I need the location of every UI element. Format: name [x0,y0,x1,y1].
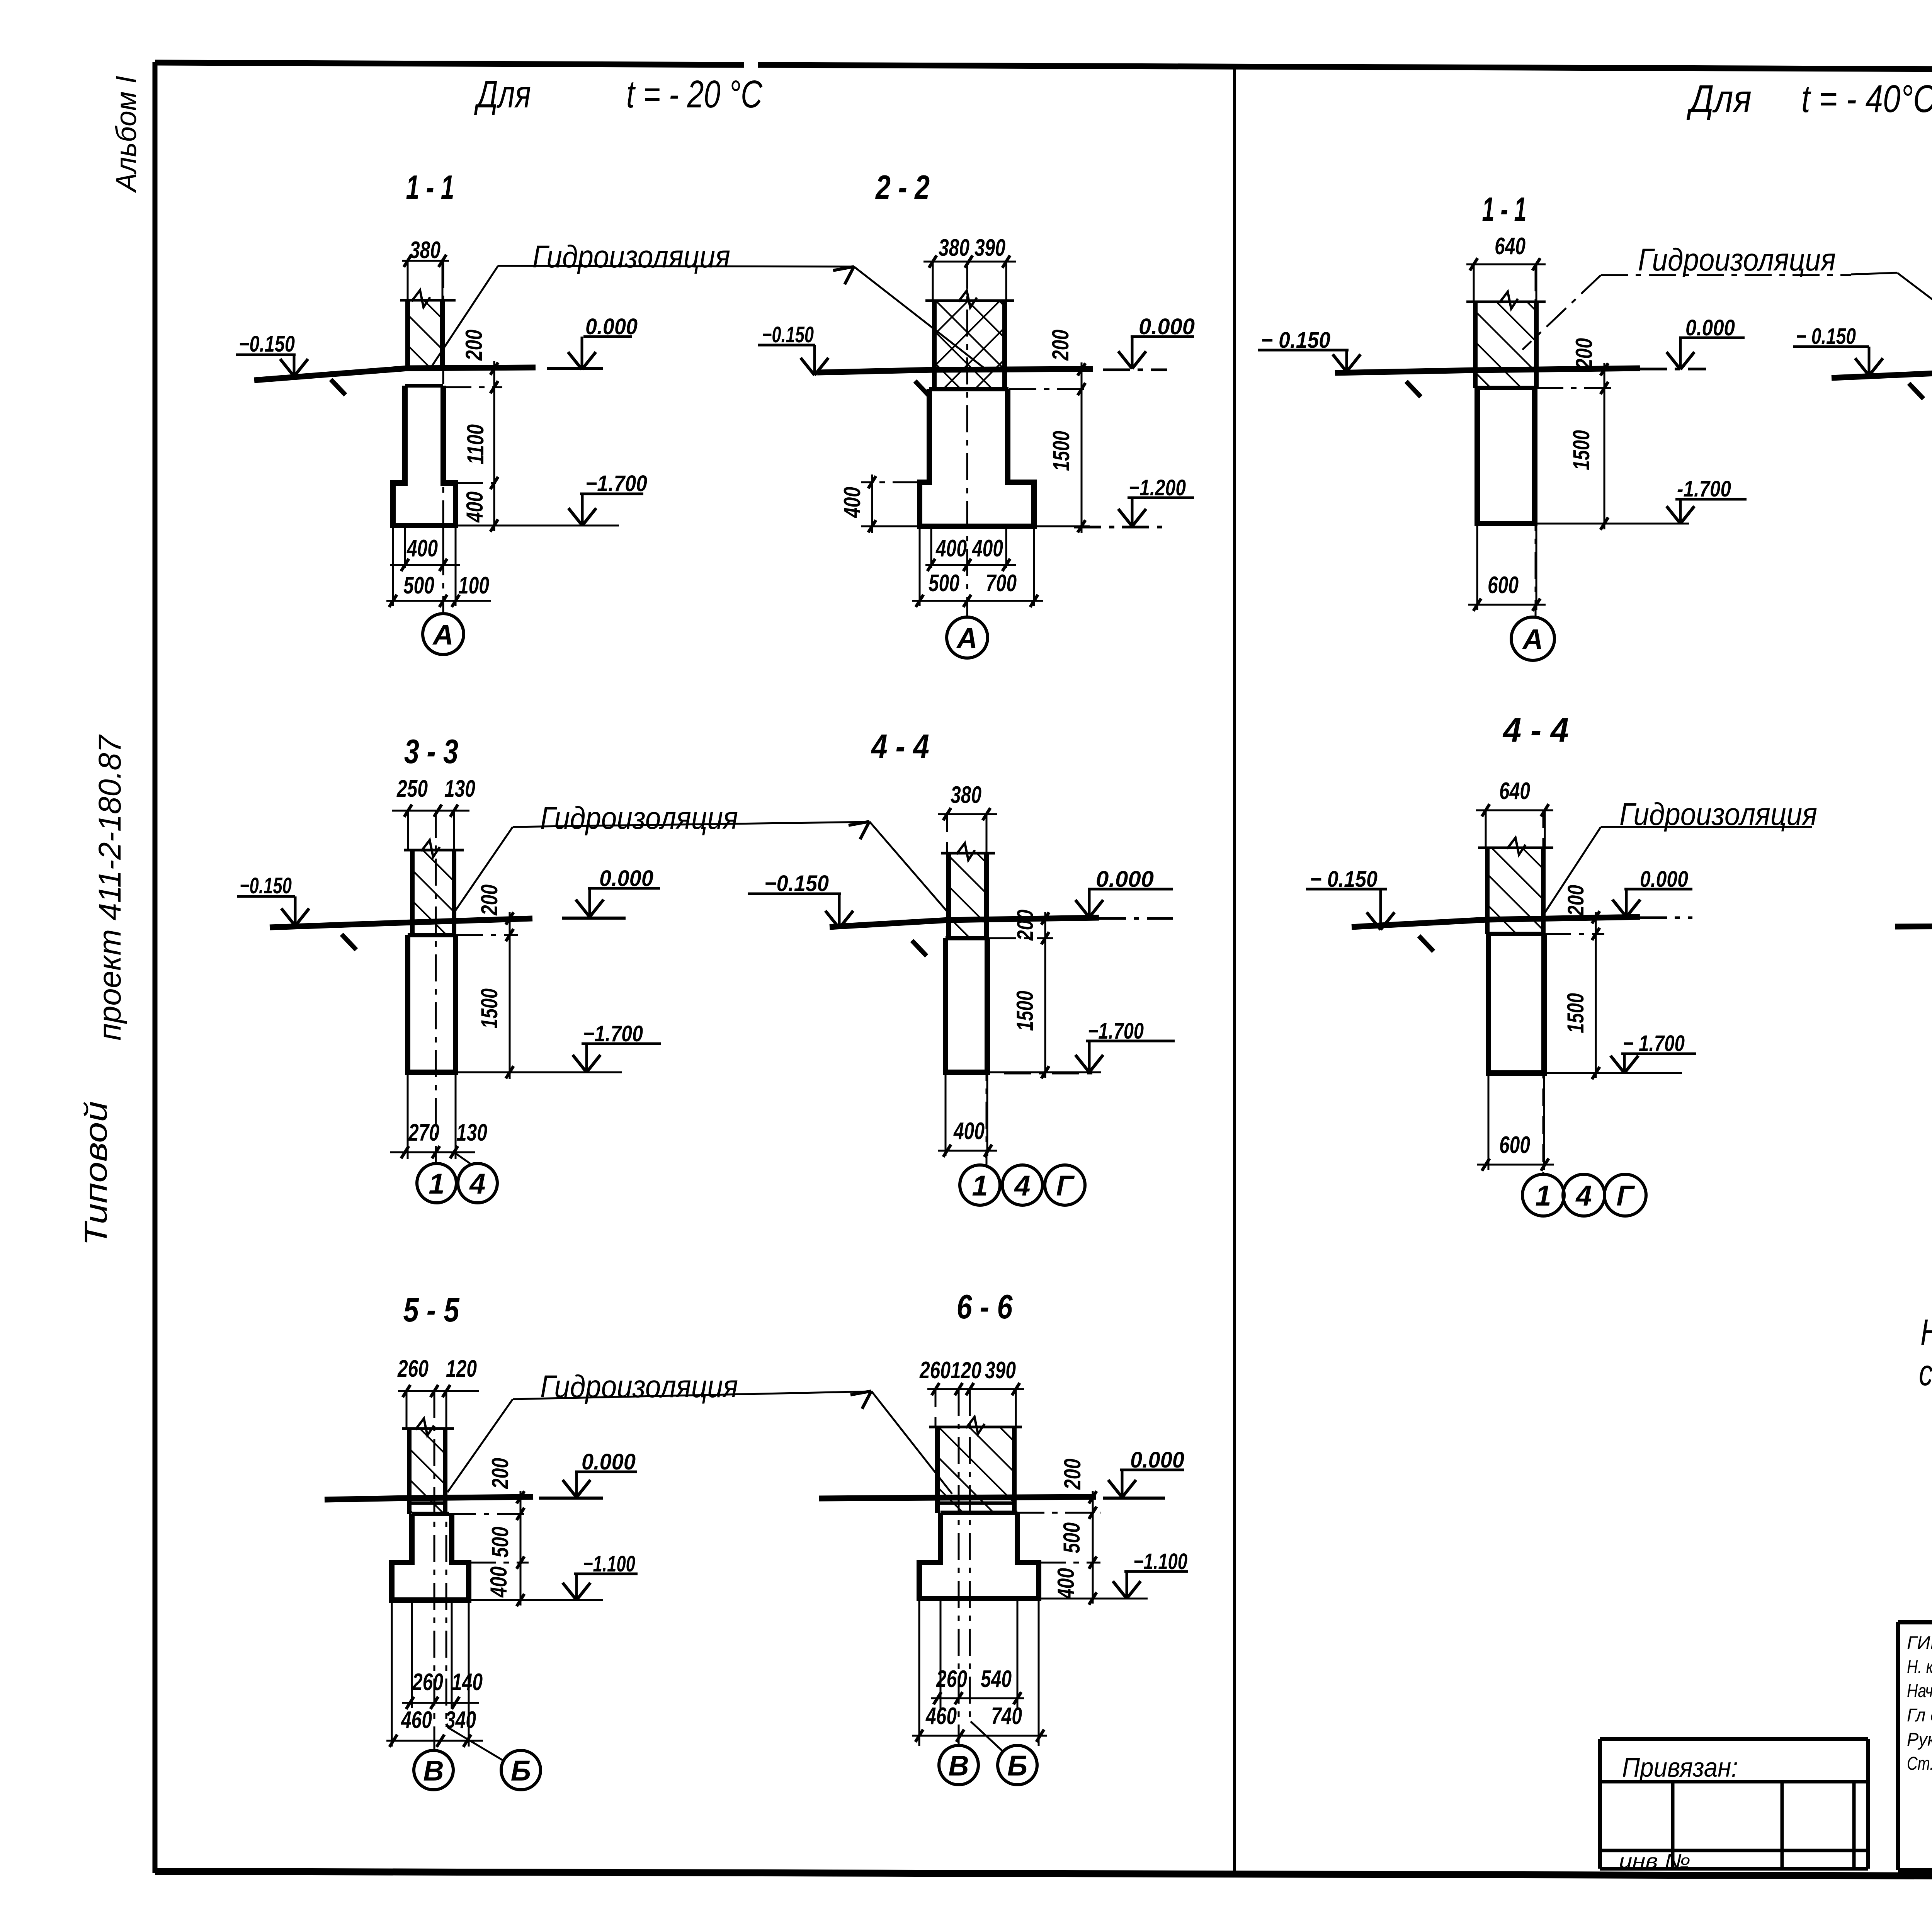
svg-text:400: 400 [486,1566,512,1598]
svg-text:1500: 1500 [1563,993,1588,1033]
svg-text:4 - 4: 4 - 4 [871,727,929,765]
svg-text:500: 500 [403,572,434,599]
svg-text:Для: Для [1686,77,1752,121]
svg-text:Г: Г [1616,1180,1635,1212]
svg-text:500: 500 [487,1527,513,1558]
svg-text:500: 500 [1059,1522,1085,1553]
svg-text:−0.150: −0.150 [239,332,295,357]
svg-text:260: 260 [919,1357,951,1384]
svg-text:Гидроизоляция: Гидроизоляция [532,239,730,274]
svg-text:640: 640 [1499,778,1530,804]
svg-text:120: 120 [446,1355,477,1382]
svg-text:Гидроизоляция: Гидроизоляция [540,801,738,836]
svg-text:200: 200 [1563,885,1588,916]
svg-text:1: 1 [972,1170,988,1202]
svg-text:t = - 20 °C: t = - 20 °C [626,73,763,116]
svg-text:390: 390 [985,1357,1016,1384]
svg-text:200: 200 [1060,1459,1085,1490]
svg-text:Для: Для [474,73,531,116]
svg-text:Б: Б [511,1755,531,1787]
svg-text:100: 100 [458,572,489,599]
svg-text:3 - 3: 3 - 3 [404,732,458,770]
svg-text:−0.150: −0.150 [764,871,829,896]
svg-text:200: 200 [1048,330,1073,361]
svg-text:120: 120 [951,1357,981,1383]
svg-text:400: 400 [953,1118,985,1145]
svg-text:640: 640 [1495,233,1526,260]
svg-text:ГИП: ГИП [1907,1633,1932,1653]
svg-text:А: А [1522,623,1543,655]
svg-text:400: 400 [1053,1568,1079,1599]
svg-text:Нач отд.: Нач отд. [1907,1681,1932,1701]
svg-text:В: В [948,1750,969,1782]
svg-text:Гл спец: Гл спец [1907,1705,1932,1726]
svg-text:400: 400 [462,492,488,523]
svg-text:Типовой: Типовой [78,1101,114,1246]
svg-text:260: 260 [412,1669,443,1696]
svg-text:Ст. инж.: Ст. инж. [1907,1753,1932,1774]
svg-text:200: 200 [476,884,502,916]
svg-text:380: 380 [410,237,440,264]
svg-text:200: 200 [461,330,487,361]
svg-text:1 - 1: 1 - 1 [1482,190,1527,228]
svg-text:−0.150: −0.150 [762,322,814,347]
svg-text:130: 130 [456,1119,487,1146]
svg-text:200: 200 [1013,910,1038,941]
svg-text:740: 740 [991,1703,1022,1730]
svg-text:Рук. гр.: Рук. гр. [1907,1730,1932,1750]
svg-text:-1.700: -1.700 [1677,476,1731,502]
svg-text:400: 400 [406,535,438,562]
svg-text:1500: 1500 [1048,431,1074,471]
svg-text:инв №: инв № [1619,1850,1690,1872]
svg-text:500: 500 [929,570,959,597]
svg-text:270: 270 [408,1119,439,1146]
svg-text:5 - 5: 5 - 5 [403,1291,460,1329]
svg-text:200: 200 [1571,338,1597,369]
svg-text:4 - 4: 4 - 4 [1502,711,1569,749]
svg-text:− 1.700: − 1.700 [1623,1031,1685,1056]
svg-text:4: 4 [1575,1180,1592,1212]
svg-text:200: 200 [487,1458,513,1489]
svg-text:380: 380 [939,235,969,261]
svg-text:− 0.150: − 0.150 [1796,324,1856,349]
svg-text:Привязан:: Привязан: [1622,1752,1738,1782]
svg-text:А: А [956,622,977,654]
svg-text:140: 140 [452,1669,483,1696]
svg-text:600: 600 [1488,572,1519,599]
svg-text:Гидроизоляция: Гидроизоляция [1638,242,1836,277]
svg-text:Настоящий: Настоящий [1920,1312,1932,1353]
svg-text:460: 460 [400,1707,432,1733]
svg-text:В: В [423,1755,444,1787]
svg-text:Г: Г [1056,1170,1075,1202]
svg-text:6 - 6: 6 - 6 [957,1287,1013,1326]
svg-text:А: А [432,619,453,651]
svg-text:с листом: с листом [1919,1352,1932,1393]
svg-text:t = - 40°C: t = - 40°C [1801,77,1932,121]
svg-text:проект 411-2-180.87: проект 411-2-180.87 [92,734,128,1041]
svg-text:1500: 1500 [1012,991,1038,1031]
svg-text:4: 4 [1014,1170,1030,1202]
svg-text:Н. контр: Н. контр [1907,1657,1932,1677]
svg-text:−1.700: −1.700 [585,471,647,496]
svg-text:460: 460 [925,1703,957,1730]
svg-text:1100: 1100 [463,424,488,464]
svg-text:Гидроизоляция: Гидроизоляция [540,1369,738,1404]
svg-text:1: 1 [1535,1180,1551,1212]
svg-text:700: 700 [986,570,1017,597]
svg-text:400: 400 [971,535,1003,562]
svg-text:250: 250 [396,776,428,802]
svg-text:540: 540 [981,1666,1012,1692]
svg-text:2 - 2: 2 - 2 [875,168,930,206]
svg-text:1: 1 [429,1168,444,1200]
svg-text:260: 260 [397,1355,429,1382]
svg-text:−0.150: −0.150 [240,873,292,898]
svg-text:Б: Б [1007,1750,1027,1782]
svg-text:1500: 1500 [1568,430,1594,470]
svg-text:400: 400 [839,487,865,518]
svg-text:1 - 1: 1 - 1 [406,168,454,206]
svg-text:600: 600 [1499,1132,1530,1158]
svg-text:1500: 1500 [476,988,502,1029]
svg-text:Альбом I: Альбом I [110,76,142,193]
svg-text:400: 400 [935,535,967,562]
svg-text:380: 380 [951,782,981,808]
svg-text:130: 130 [444,776,475,802]
svg-text:260: 260 [936,1666,967,1692]
svg-text:390: 390 [975,235,1005,261]
svg-text:4: 4 [469,1168,485,1200]
